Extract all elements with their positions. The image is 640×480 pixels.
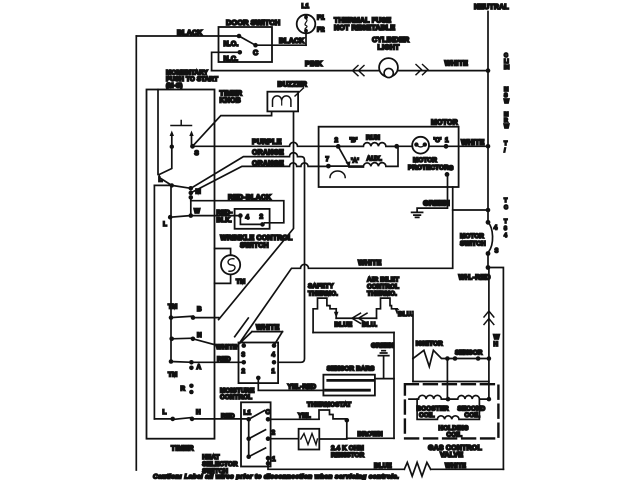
svg-text:N: N xyxy=(197,332,202,339)
svg-text:BLU.: BLU. xyxy=(398,311,413,318)
node junction white/neutral xyxy=(486,144,491,149)
contact arrow left xyxy=(171,134,173,147)
svg-text:W: W xyxy=(504,99,509,105)
svg-text:A: A xyxy=(197,364,202,371)
svg-text:F1: F1 xyxy=(317,15,325,22)
white bridge over moisture box xyxy=(235,318,283,345)
svg-text:WRINKLE CONTROL: WRINKLE CONTROL xyxy=(220,235,293,242)
blade A xyxy=(171,361,191,364)
timer motor TM circle xyxy=(221,255,240,274)
wire BLU drop with arrow xyxy=(397,309,413,359)
wire heat 1 to bottom rail xyxy=(268,458,404,469)
door switch contact C xyxy=(253,43,258,48)
wire from door switch N.C. xyxy=(212,52,240,70)
svg-text:THERMO.: THERMO. xyxy=(308,291,338,298)
svg-text:Caution: Label all wires prior: Caution: Label all wires prior to discon… xyxy=(153,474,399,480)
svg-text:3: 3 xyxy=(504,226,507,232)
heat selector blades xyxy=(249,411,266,457)
svg-text:TM: TM xyxy=(168,304,177,311)
wrinkle internal link xyxy=(240,216,262,225)
svg-text:/: / xyxy=(504,148,506,154)
buzzer corner tick xyxy=(295,88,304,96)
node junction motor/neutral xyxy=(486,208,491,213)
svg-text:GREEN: GREEN xyxy=(371,343,394,350)
svg-text:2: 2 xyxy=(335,137,339,144)
contact arrow right xyxy=(191,134,193,146)
svg-text:4: 4 xyxy=(494,225,498,232)
2.4 K resistor R1 xyxy=(268,438,299,440)
wire buzzer left lead to S contact xyxy=(193,111,272,146)
svg-text:3: 3 xyxy=(495,248,499,255)
ground under motor xyxy=(412,212,423,217)
svg-text:L1: L1 xyxy=(302,3,310,10)
svg-text:PINK: PINK xyxy=(305,61,323,68)
svg-text:2: 2 xyxy=(272,430,276,437)
svg-text:4: 4 xyxy=(272,352,276,359)
wire bus vertical right of sensor bars xyxy=(393,333,395,439)
svg-text:RED: RED xyxy=(217,356,231,363)
svg-text:'A': 'A' xyxy=(351,158,359,165)
svg-text:CYLINDER: CYLINDER xyxy=(372,37,409,44)
svg-text:NOT RESETABLE: NOT RESETABLE xyxy=(334,25,395,32)
svg-text:W: W xyxy=(504,124,509,130)
svg-text:BLUE: BLUE xyxy=(374,462,392,469)
svg-text:BLK.: BLK. xyxy=(217,217,232,224)
moisture terminal 1 xyxy=(272,360,277,365)
svg-text:W: W xyxy=(494,334,500,341)
svg-text:WHITE: WHITE xyxy=(216,344,237,351)
node B contact xyxy=(191,315,196,320)
label BLUE bottom xyxy=(373,461,392,468)
svg-text:COIL: COIL xyxy=(465,412,481,419)
svg-text:THERMO.: THERMO. xyxy=(367,291,397,298)
svg-text:W: W xyxy=(194,208,200,215)
moisture terminal 2 xyxy=(241,360,246,365)
svg-text:3: 3 xyxy=(242,352,246,359)
svg-text:1: 1 xyxy=(272,456,276,463)
wire neutral vertical xyxy=(487,12,489,268)
svg-text:WH.-RED: WH.-RED xyxy=(459,275,491,282)
node A contacts xyxy=(189,360,194,365)
svg-text:VALVE: VALVE xyxy=(440,452,463,459)
timer box xyxy=(147,90,215,439)
wrinkle control switch xyxy=(235,209,270,229)
svg-text:4: 4 xyxy=(504,233,507,239)
wire inner bus vertical xyxy=(153,185,155,419)
wire BLUE drop with arrow xyxy=(335,309,337,318)
wire YEL-RED to sensor bars xyxy=(258,378,323,391)
blade L to W xyxy=(170,216,191,218)
svg-text:PURPLE: PURPLE xyxy=(252,139,282,146)
svg-text:S: S xyxy=(195,150,199,157)
node N contact xyxy=(191,337,196,342)
door switch blade xyxy=(239,36,256,45)
svg-text:T: T xyxy=(504,219,508,225)
svg-text:HEAT: HEAT xyxy=(202,454,219,461)
wire black left vertical xyxy=(135,36,137,470)
heat selector L1 xyxy=(246,417,251,422)
door switch contact N.C. xyxy=(238,50,243,55)
wire PINK to cylinder light xyxy=(212,70,488,72)
motor centrifugal arc xyxy=(330,171,345,178)
node S contact xyxy=(190,144,195,149)
buzzer coil xyxy=(273,96,291,106)
svg-text:WHITE: WHITE xyxy=(461,140,485,147)
svg-text:2.4 K OHM: 2.4 K OHM xyxy=(331,445,364,452)
svg-text:THERMAL FUSE: THERMAL FUSE xyxy=(334,18,391,25)
svg-text:YEL: YEL xyxy=(298,412,311,419)
sensor bar upper xyxy=(328,379,373,382)
wire TM top lead xyxy=(215,249,231,256)
svg-text:C: C xyxy=(504,205,508,211)
node R contacts xyxy=(189,384,194,389)
svg-text:SENSOR: SENSOR xyxy=(455,350,483,357)
buzzer xyxy=(267,92,298,112)
node L junction xyxy=(170,183,174,187)
svg-text:RED: RED xyxy=(221,413,235,420)
svg-text:H: H xyxy=(196,409,201,416)
svg-text:BLUE: BLUE xyxy=(335,321,353,328)
wire RED-BLK W to wrinkle 4 xyxy=(191,215,241,217)
wire WHITE bottom rail xyxy=(431,468,504,470)
wire white diagonal D2 to neutral run xyxy=(236,210,453,348)
wire L bottom to bus xyxy=(155,418,173,420)
blade N xyxy=(172,337,193,340)
heat selector terminal 1 xyxy=(266,456,271,461)
wire M bus down xyxy=(190,197,192,215)
svg-text:C: C xyxy=(266,409,271,416)
svg-text:2: 2 xyxy=(242,368,246,375)
gas control valve dashed box xyxy=(405,384,499,438)
node thermostat junction xyxy=(345,418,350,423)
svg-text:'C': 'C' xyxy=(434,137,442,144)
node run/aux junction xyxy=(394,144,399,149)
svg-text:T: T xyxy=(504,198,508,204)
svg-text:SWITCH: SWITCH xyxy=(460,241,486,248)
svg-text:SAFETY: SAFETY xyxy=(308,283,334,290)
svg-text:COIL: COIL xyxy=(447,432,463,439)
svg-text:(M-S): (M-S) xyxy=(166,83,183,90)
svg-text:COIL: COIL xyxy=(419,412,435,419)
svg-text:7: 7 xyxy=(326,156,330,163)
svg-text:L1: L1 xyxy=(244,410,252,417)
blade TM to B xyxy=(171,316,193,317)
moisture control box xyxy=(239,343,279,384)
run winding xyxy=(338,143,397,147)
svg-text:ORANGE: ORANGE xyxy=(252,150,284,157)
svg-text:G: G xyxy=(449,165,454,172)
svg-text:TM: TM xyxy=(236,279,245,286)
svg-text:NEUTRAL: NEUTRAL xyxy=(474,4,509,11)
svg-text:N.C.: N.C. xyxy=(224,56,239,63)
svg-text:4: 4 xyxy=(246,214,250,221)
svg-text:CONTROL: CONTROL xyxy=(220,394,252,401)
wire WH-RED vertical with arrows xyxy=(488,268,490,400)
connector chevrons left xyxy=(353,66,365,76)
wire GREEN to ground xyxy=(417,174,447,212)
heat selector switch xyxy=(241,402,271,466)
svg-text:WHITE: WHITE xyxy=(445,61,469,68)
svg-text:ORANGE: ORANGE xyxy=(252,160,284,167)
heat selector bus xyxy=(248,419,250,456)
motor terminal G xyxy=(445,172,450,177)
door switch S1 xyxy=(219,27,273,62)
svg-text:2: 2 xyxy=(260,214,264,221)
svg-text:F2: F2 xyxy=(317,27,325,34)
svg-text:CONTROL: CONTROL xyxy=(367,284,399,291)
wire TM bottom lead xyxy=(215,274,231,283)
wire sensor bars to bus xyxy=(375,378,394,380)
svg-text:WHITE: WHITE xyxy=(256,325,280,332)
svg-text:BLACK: BLACK xyxy=(279,38,305,45)
node junction wh-red xyxy=(486,265,491,270)
bottom zigzag resistor xyxy=(404,462,430,476)
svg-text:GAS CONTROL: GAS CONTROL xyxy=(428,445,482,452)
node M contacts xyxy=(189,186,194,191)
svg-text:MOTOR: MOTOR xyxy=(413,157,437,164)
moisture terminal 3 xyxy=(241,343,246,348)
svg-text:L: L xyxy=(163,221,167,228)
svg-text:L: L xyxy=(159,177,163,184)
svg-text:IGNITOR: IGNITOR xyxy=(416,341,443,348)
holding coil xyxy=(417,399,479,419)
node junction pink/neutral xyxy=(486,68,491,73)
svg-text:AUX.: AUX. xyxy=(367,155,383,162)
svg-text:BROWN: BROWN xyxy=(358,431,384,438)
svg-text:1: 1 xyxy=(445,137,449,144)
motor blade 2-A xyxy=(338,146,348,164)
node W contact xyxy=(189,213,194,218)
wire B to buzzer diagonal xyxy=(193,317,219,319)
wire BLUE between thermostats xyxy=(336,317,376,319)
wire WHITE motor to neutral xyxy=(446,145,488,147)
motor box xyxy=(319,127,459,187)
svg-text:GREEN: GREEN xyxy=(423,198,450,207)
svg-text:DI: DI xyxy=(504,65,510,71)
wire top stub inside timer xyxy=(157,90,159,175)
heat selector C xyxy=(266,417,271,422)
svg-text:C: C xyxy=(253,50,258,57)
motor terminal C/1 xyxy=(444,144,449,149)
wire ORANGE 2 from M to motor terminal 7 xyxy=(191,163,329,193)
wire ignitor leg down xyxy=(412,359,414,382)
booster coil xyxy=(409,395,448,399)
aux winding xyxy=(328,146,398,167)
connector chevrons blue xyxy=(352,313,367,323)
sensor bars box xyxy=(323,375,375,396)
svg-text:WHITE: WHITE xyxy=(445,462,466,469)
wire RED timer H to heat selector L1 xyxy=(192,418,249,420)
svg-text:H: H xyxy=(494,341,499,348)
wire bottom rail up to motor switch junction xyxy=(489,268,504,470)
svg-text:YEL-RED: YEL-RED xyxy=(288,384,317,391)
node booster/second junction xyxy=(446,397,451,402)
moisture terminal 4 xyxy=(272,343,277,348)
wire sensor leg down xyxy=(446,359,448,400)
motor protector xyxy=(397,145,446,147)
heat selector terminal 2 xyxy=(266,436,271,441)
svg-text:LIGHT: LIGHT xyxy=(378,45,401,52)
node L bottom contact xyxy=(170,417,175,422)
svg-text:AIR INLET: AIR INLET xyxy=(367,277,399,284)
motor terminal 7 xyxy=(326,164,331,169)
svg-text:BUZZER: BUZZER xyxy=(278,82,308,89)
push button bar xyxy=(171,121,192,126)
wire RED-BLACK from M to wrinkle switch xyxy=(191,201,284,223)
wire RED timer A to moisture 2 xyxy=(191,361,243,363)
node TM contact upper xyxy=(169,315,174,320)
svg-text:TIMER: TIMER xyxy=(220,91,243,98)
svg-text:THERMOSTAT: THERMOSTAT xyxy=(307,401,351,408)
wire PURPLE S to motor terminal 2 xyxy=(193,142,339,146)
wire left bus jog down to L xyxy=(159,147,172,186)
wire buzzer center lead down (D1 diagonal to timer B) xyxy=(219,111,294,319)
wire L bus to TM row xyxy=(170,185,172,361)
wire L junction to inner bus xyxy=(154,184,171,186)
svg-text:RESISTOR: RESISTOR xyxy=(331,452,365,459)
wire BROWN to bus xyxy=(347,437,394,439)
blade L to H xyxy=(173,418,192,420)
svg-text:N.O.: N.O. xyxy=(224,41,239,48)
connector chevrons right xyxy=(416,65,428,75)
node N bus dot xyxy=(169,337,174,342)
svg-text:B: B xyxy=(197,306,202,313)
svg-text:RUN: RUN xyxy=(366,134,380,141)
sensor bar lower xyxy=(326,389,370,392)
svg-text:SELECTOR: SELECTOR xyxy=(202,461,238,468)
svg-text:'B': 'B' xyxy=(350,137,358,144)
node second coil right xyxy=(487,397,492,402)
svg-text:RED-: RED- xyxy=(217,209,233,216)
node left bus dot xyxy=(170,145,174,149)
svg-text:RED-BLACK: RED-BLACK xyxy=(228,194,271,201)
cylinder light xyxy=(379,58,398,77)
node H contact xyxy=(190,417,195,422)
svg-text:MOTOR: MOTOR xyxy=(460,233,484,240)
wire ORANGE 1 from M to moisture control xyxy=(191,153,305,363)
svg-text:SWITCH: SWITCH xyxy=(240,243,269,250)
safety thermo bottom rail xyxy=(313,332,394,334)
svg-text:KNOB: KNOB xyxy=(220,98,241,105)
svg-text:SENSOR BARS: SENSOR BARS xyxy=(327,366,375,373)
svg-text:T: T xyxy=(504,141,508,147)
svg-text:L: L xyxy=(163,409,167,416)
blade L to M xyxy=(172,185,191,188)
svg-text:PROTECTOR: PROTECTOR xyxy=(408,164,449,171)
thermal fuse F1-F2 xyxy=(297,15,316,34)
svg-text:R: R xyxy=(181,386,186,393)
door switch contact N.O. xyxy=(237,34,242,39)
heat selector mid dot xyxy=(246,436,251,441)
svg-text:1: 1 xyxy=(272,368,276,375)
wire internal gas valve top xyxy=(413,381,489,383)
node A bus dot xyxy=(169,359,174,364)
svg-text:TIMER: TIMER xyxy=(171,446,194,453)
moisture bottom terminal xyxy=(256,376,261,381)
svg-text:TM: TM xyxy=(168,372,177,379)
wire motor frame to neutral xyxy=(453,187,488,210)
motor terminal 2 xyxy=(336,144,341,149)
svg-text:MOTOR: MOTOR xyxy=(431,120,458,127)
svg-text:BLACK: BLACK xyxy=(177,30,203,37)
svg-text:DOOR SWITCH: DOOR SWITCH xyxy=(226,18,280,27)
wrinkle terminal 4 xyxy=(238,213,243,218)
wire YEL heat C to thermostat xyxy=(268,418,319,420)
wire BLACK door switch to left rail xyxy=(136,35,218,37)
second coil xyxy=(448,396,489,400)
node L lower xyxy=(168,215,173,220)
svg-text:WHITE: WHITE xyxy=(358,260,382,267)
motor switch xyxy=(486,220,491,225)
wrinkle terminal 2 xyxy=(260,222,265,227)
wire BLACK door switch C to fuse xyxy=(256,44,307,46)
heat selector bottom dot xyxy=(246,454,251,459)
wire WHITE from N to moisture 3 xyxy=(193,339,239,348)
